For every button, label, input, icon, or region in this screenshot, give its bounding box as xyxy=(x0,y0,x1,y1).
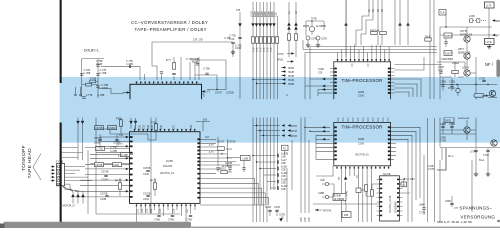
svg-text:C3T0B: C3T0B xyxy=(143,168,151,170)
wire xyxy=(395,64,443,66)
wire xyxy=(100,136,126,138)
diode D9 xyxy=(287,22,291,25)
wire xyxy=(190,62,195,80)
wire row6 long xyxy=(257,83,286,85)
svg-text:P7B: P7B xyxy=(257,47,259,52)
capacitor C15 xyxy=(115,139,118,140)
svg-text:C4BB: C4BB xyxy=(318,193,325,195)
resistor R6 xyxy=(251,37,254,43)
wire xyxy=(200,143,220,147)
ground xyxy=(316,43,320,48)
svg-text:C.T0B: C.T0B xyxy=(203,69,210,71)
box R small xyxy=(401,182,407,187)
wire xyxy=(315,135,317,155)
svg-text:C.T0B: C.T0B xyxy=(121,155,128,157)
svg-text:C74B: C74B xyxy=(186,220,192,222)
wire xyxy=(322,196,334,198)
wire xyxy=(252,2,254,222)
U4 bottom pins xyxy=(336,166,389,169)
svg-text:C3UB: C3UB xyxy=(94,143,101,145)
svg-text:C3B: C3B xyxy=(281,157,286,159)
wire xyxy=(316,138,330,140)
svg-text:S+Y2: S+Y2 xyxy=(226,149,232,151)
svg-text:C.U8: C.U8 xyxy=(229,39,235,41)
svg-text:BOB5T–CB: BOB5T–CB xyxy=(458,52,471,54)
wire xyxy=(322,183,334,185)
node dot xyxy=(304,127,305,128)
svg-text:RAP/148: RAP/148 xyxy=(370,30,380,33)
wire big L xyxy=(316,155,334,159)
wire xyxy=(96,145,126,147)
U2 top pins xyxy=(337,59,390,62)
transistor Q7 xyxy=(489,90,495,96)
wire xyxy=(440,34,492,36)
wire xyxy=(451,196,453,207)
wire xyxy=(75,196,129,198)
wire xyxy=(430,0,434,99)
svg-text:C35: C35 xyxy=(318,73,323,75)
J1 pins xyxy=(58,166,60,185)
node dot xyxy=(456,84,457,85)
arrow MTG78 xyxy=(315,209,318,211)
node dot xyxy=(227,157,228,158)
svg-text:C.U5B: C.U5B xyxy=(100,73,107,75)
wire xyxy=(439,160,441,222)
wire xyxy=(391,127,420,198)
U4 left pins xyxy=(334,126,337,160)
diode D4 xyxy=(258,23,262,26)
wire y134 xyxy=(440,133,476,135)
wire stub row1 xyxy=(253,155,276,157)
wire below q7 xyxy=(488,97,497,99)
wire xyxy=(466,120,468,140)
staircase wire xyxy=(96,129,121,134)
node dot xyxy=(311,20,312,21)
junction dots xyxy=(252,155,253,156)
svg-text:C4B: C4B xyxy=(320,180,325,182)
svg-text:TAPE HEAD: TAPE HEAD xyxy=(27,148,33,179)
U2 right pins xyxy=(388,68,395,94)
capacitor C30 xyxy=(228,168,231,169)
wire xyxy=(80,185,129,187)
svg-text:LB4B: LB4B xyxy=(419,205,425,207)
wire xyxy=(100,141,129,143)
wire xyxy=(259,2,261,222)
capacitor C18 xyxy=(105,195,108,196)
diagonal fan xyxy=(62,184,83,191)
svg-text:C3B: C3B xyxy=(309,217,311,222)
J1 left arrows xyxy=(51,165,56,181)
wire xyxy=(239,12,241,99)
wire vertical 88 xyxy=(87,150,89,214)
node dot xyxy=(221,153,222,154)
diode D10 xyxy=(294,22,298,25)
svg-text:4.7Y: 4.7Y xyxy=(209,152,214,154)
diode D1 xyxy=(238,23,242,26)
wire xyxy=(394,0,396,45)
box TLB7S xyxy=(444,33,452,38)
trimmer M1 xyxy=(309,26,314,31)
svg-text:S+2B: S+2B xyxy=(265,207,271,209)
capacitor C22 xyxy=(277,167,278,170)
dashed box 1 xyxy=(470,19,473,22)
capacitor C2 xyxy=(129,65,130,68)
wire loop A xyxy=(190,60,226,90)
svg-text:C3U6: C3U6 xyxy=(143,174,150,176)
wire xyxy=(318,92,330,94)
wire xyxy=(345,204,347,212)
wire xyxy=(144,74,146,80)
svg-text:HF2B: HF2B xyxy=(288,72,294,74)
svg-text:TB: TB xyxy=(339,177,341,180)
svg-text:P7B: P7B xyxy=(271,47,273,52)
svg-text:40B: 40B xyxy=(344,215,349,217)
node dot xyxy=(252,79,253,80)
wire xyxy=(80,179,126,181)
wire stub row6 xyxy=(271,187,277,189)
page edge black bar upper segment xyxy=(60,0,62,83)
wire xyxy=(285,140,293,190)
ground xyxy=(474,172,478,177)
IC U2 body xyxy=(334,62,391,103)
wire xyxy=(391,147,396,159)
resistor R16 xyxy=(371,31,377,34)
svg-text:TH.B: TH.B xyxy=(425,37,431,39)
svg-text:S+2B: S+2B xyxy=(281,180,287,182)
svg-text:C.T7B: C.T7B xyxy=(96,149,103,151)
wire arrow xyxy=(287,53,293,55)
IC U3 body xyxy=(130,132,201,204)
node dot xyxy=(487,84,488,85)
IC U5 body xyxy=(380,176,400,221)
U1 top pins xyxy=(136,82,198,85)
svg-text:C3UB: C3UB xyxy=(235,48,242,50)
svg-text:C3B: C3B xyxy=(281,176,286,178)
U3 top pins xyxy=(134,129,196,132)
box L30B xyxy=(241,156,251,161)
svg-text:C3U6: C3U6 xyxy=(143,199,150,201)
resistor R12 xyxy=(275,37,278,43)
capacitor C8 on riser xyxy=(196,64,199,65)
resistor R34 xyxy=(218,147,225,150)
capacitor C17 xyxy=(146,170,149,171)
svg-text:C7Y: C7Y xyxy=(454,208,459,210)
vertical trio with labels xyxy=(301,168,309,213)
resistor R14 xyxy=(294,34,297,40)
wire xyxy=(305,47,310,119)
node dot xyxy=(256,83,257,84)
capacitor C23b xyxy=(275,210,278,211)
U4 right pins xyxy=(388,126,391,160)
svg-text:TLB7T: TLB7T xyxy=(445,54,453,56)
svg-text:VECTOR_C/14B: VECTOR_C/14B xyxy=(390,195,392,213)
svg-text:C37B: C37B xyxy=(279,215,285,217)
svg-text:S+2B: S+2B xyxy=(281,173,287,175)
U3 top pin labels xyxy=(135,125,193,130)
svg-text:TC: TC xyxy=(357,175,359,178)
wire xyxy=(345,0,347,57)
page edge black bar lower segment xyxy=(60,123,62,224)
wire xyxy=(196,122,210,132)
wire xyxy=(455,57,476,147)
wire ladder right rail xyxy=(97,59,99,98)
wire xyxy=(441,148,443,160)
wire xyxy=(85,174,129,176)
transistor Q5 xyxy=(464,53,470,59)
wire xyxy=(155,117,157,124)
horizontal scrollbar thumb xyxy=(4,222,192,228)
op-amp U1 body xyxy=(130,84,202,103)
junction dots xyxy=(256,125,257,126)
node dot xyxy=(412,178,413,179)
ground xyxy=(486,172,490,177)
svg-text:C.T7B: C.T7B xyxy=(126,61,133,63)
wire xyxy=(263,2,265,222)
svg-text:C3U5: C3U5 xyxy=(274,207,281,209)
wire xyxy=(361,184,377,196)
horizontal scrollbar track bottom edge xyxy=(191,227,500,228)
trimmer M2 xyxy=(306,36,310,40)
wire xyxy=(316,142,334,144)
capacitor C29 xyxy=(216,168,219,169)
svg-text:L30B: L30B xyxy=(243,158,249,160)
wire stubs below IC2 xyxy=(137,205,196,222)
diode D12 xyxy=(398,22,402,25)
diode D17 xyxy=(279,218,283,221)
resistor R18 xyxy=(452,70,458,73)
wire xyxy=(257,130,281,132)
svg-text:C3Y0B: C3Y0B xyxy=(143,194,151,196)
svg-text:C37: C37 xyxy=(187,208,189,213)
wire xyxy=(152,60,157,80)
wire xyxy=(120,117,122,129)
resistor R25 xyxy=(221,170,227,173)
svg-text:17B 17B: 17B 17B xyxy=(193,40,203,42)
capacitor C6 xyxy=(172,73,175,74)
wire xyxy=(306,20,324,22)
wire xyxy=(378,35,382,45)
wire xyxy=(200,138,216,140)
wire xyxy=(341,167,371,222)
wire xyxy=(161,74,163,80)
svg-text:C7YB: C7YB xyxy=(428,169,435,171)
svg-text:L34B: L34B xyxy=(469,16,475,18)
capacitor C23a xyxy=(268,210,271,211)
svg-text:C7YB: C7YB xyxy=(419,213,426,215)
wire long vertical xyxy=(471,160,473,212)
resistor R30 xyxy=(96,147,105,151)
capacitor C22c xyxy=(277,173,278,176)
svg-text:C3U6: C3U6 xyxy=(113,165,120,167)
wire xyxy=(317,90,319,97)
svg-text:A730B: A730B xyxy=(334,195,341,198)
wire xyxy=(315,209,322,211)
svg-text:C3U6: C3U6 xyxy=(358,143,365,145)
diode D2 xyxy=(251,23,255,26)
svg-text:BOB5T–CB: BOB5T–CB xyxy=(460,34,473,36)
resistor R9 xyxy=(263,37,266,43)
capacitor C4b xyxy=(82,97,85,98)
wire y62 xyxy=(437,61,465,63)
svg-text:CBT7: CBT7 xyxy=(458,49,465,51)
box D xyxy=(356,188,361,193)
wire row5 long xyxy=(253,79,286,81)
wire xyxy=(440,84,497,86)
diode D11 xyxy=(344,22,348,25)
wire xyxy=(200,151,228,155)
svg-text:SPANNUNGS–: SPANNUNGS– xyxy=(460,206,493,211)
highlight band (selection) xyxy=(60,77,500,143)
svg-text:C3B: C3B xyxy=(275,12,277,17)
resistor R24 xyxy=(153,183,156,189)
resistor R27 xyxy=(370,190,373,196)
rounded box X2 xyxy=(474,94,484,98)
wire xyxy=(445,12,447,27)
wire xyxy=(457,85,459,97)
svg-text:S0–4: S0–4 xyxy=(448,156,454,158)
box L17F top xyxy=(485,2,495,8)
wire long vertical 434 xyxy=(434,118,436,222)
wire xyxy=(318,89,330,91)
svg-text:LS0B: LS0B xyxy=(318,69,324,71)
svg-text:CC–VORVERSTAERKER / DOLBY: CC–VORVERSTAERKER / DOLBY xyxy=(131,20,208,25)
U3 right pins xyxy=(197,138,200,198)
transistor Q6 xyxy=(464,70,470,76)
resistor R32 xyxy=(95,163,104,167)
svg-text:C3B: C3B xyxy=(272,12,274,17)
ground below C3 xyxy=(231,50,235,55)
capacitor C26 xyxy=(157,215,160,216)
svg-text:C3B: C3B xyxy=(305,217,307,222)
wire xyxy=(400,0,408,45)
resistor R33 xyxy=(113,163,122,167)
wire xyxy=(120,178,155,196)
box L173L xyxy=(485,39,495,45)
svg-text:C.U5B: C.U5B xyxy=(84,73,91,75)
capacitor C21 xyxy=(277,160,278,163)
wire stub row3 xyxy=(260,168,276,170)
trimmer M3 xyxy=(316,36,320,40)
svg-text:P7B: P7B xyxy=(253,47,255,52)
svg-text:4.7Y: 4.7Y xyxy=(209,145,214,147)
wire xyxy=(310,130,330,132)
svg-text:C34B B0B1: C34B B0B1 xyxy=(441,59,454,61)
box TLB xyxy=(439,10,446,16)
resistor R5 xyxy=(172,63,175,69)
svg-text:S+2B: S+2B xyxy=(281,186,287,188)
wire xyxy=(313,203,379,205)
wire xyxy=(180,57,182,80)
wire xyxy=(391,131,416,200)
svg-text:AL79B5B: AL79B5B xyxy=(222,165,232,168)
node circle xyxy=(75,94,77,96)
capacitor CR6 xyxy=(482,80,485,81)
resistor R26 xyxy=(364,185,367,191)
wire stub row5 xyxy=(267,181,276,183)
wire xyxy=(75,190,126,192)
svg-text:VECTOR_43: VECTOR_43 xyxy=(355,155,369,157)
svg-text:C3UB: C3UB xyxy=(100,199,107,201)
capacitor C25 xyxy=(450,203,453,204)
wire xyxy=(345,182,347,204)
capacitor C4a xyxy=(96,86,99,87)
svg-text:TLB7S: TLB7S xyxy=(445,36,453,38)
wire long vertical 427 xyxy=(427,118,429,222)
wire xyxy=(301,114,309,168)
wire xyxy=(289,2,296,57)
svg-text:NP7: NP7 xyxy=(495,35,500,37)
svg-text:S+23B: S+23B xyxy=(281,154,289,156)
svg-text:HF1B: HF1B xyxy=(277,59,283,61)
wire staircase to IC1 xyxy=(98,89,127,94)
svg-text:T742: T742 xyxy=(347,190,349,196)
wire xyxy=(85,168,126,170)
svg-text:C3B: C3B xyxy=(265,12,267,17)
svg-text:T67B: T67B xyxy=(311,19,317,21)
svg-text:C3Y0B: C3Y0B xyxy=(100,194,108,196)
resistor R8 xyxy=(259,37,262,43)
wire stub row2 xyxy=(257,161,277,163)
capacitor C14 xyxy=(98,139,101,140)
wire xyxy=(466,27,468,70)
vertical scrollbar thumb xyxy=(496,60,500,78)
wire xyxy=(96,152,129,154)
connector J1 body xyxy=(56,164,64,186)
wire row2 xyxy=(281,67,286,69)
resistor R11 xyxy=(271,37,274,43)
wire xyxy=(361,0,373,45)
svg-text:C.T0B: C.T0B xyxy=(96,61,103,63)
wire ladder left rail xyxy=(81,59,83,97)
wire xyxy=(423,210,425,216)
svg-text:P7B: P7B xyxy=(267,47,269,52)
wire xyxy=(82,84,98,86)
svg-text:S+2B: S+2B xyxy=(281,167,287,169)
svg-text:C3B: C3B xyxy=(268,12,270,17)
svg-text:NPB: NPB xyxy=(495,21,500,23)
svg-text:C37B: C37B xyxy=(311,39,317,41)
svg-text:C.T1B: C.T1B xyxy=(84,70,91,72)
resistor R13 xyxy=(287,34,290,40)
svg-text:C3Y0B: C3Y0B xyxy=(101,172,109,174)
box TH xyxy=(425,38,431,41)
wire from band top xyxy=(96,117,151,214)
wire xyxy=(395,57,425,70)
svg-text:TLB: TLB xyxy=(440,13,445,15)
svg-text:C36: C36 xyxy=(174,208,176,213)
svg-text:C3U6A: C3U6A xyxy=(101,179,109,182)
U2 top pin wires xyxy=(338,0,390,59)
capacitor C20 xyxy=(277,154,278,157)
wire xyxy=(440,129,476,131)
diode D8 xyxy=(272,23,276,26)
svg-text:C37B: C37B xyxy=(321,39,327,41)
wire xyxy=(310,78,330,80)
svg-text:C.T7B: C.T7B xyxy=(229,36,236,38)
capacitor C24 xyxy=(422,208,425,209)
staircase wire xyxy=(121,130,156,140)
IC U4 body xyxy=(334,122,391,165)
wire vertical 287 xyxy=(286,168,288,222)
wire xyxy=(266,2,268,222)
svg-text:C3T0B: C3T0B xyxy=(95,165,103,167)
transistor Q8 xyxy=(464,127,470,133)
diode D16 xyxy=(344,176,348,179)
capacitor C3a xyxy=(80,74,83,75)
svg-text:P73X: P73X xyxy=(278,54,284,56)
transistor Q10 xyxy=(456,88,460,92)
svg-text:C3B: C3B xyxy=(261,12,263,17)
